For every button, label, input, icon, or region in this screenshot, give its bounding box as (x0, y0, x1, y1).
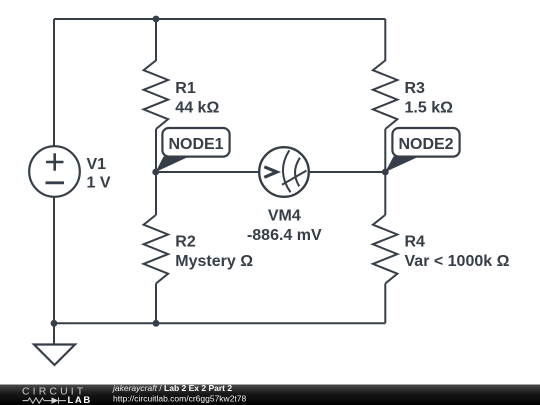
node A (NODE1 junction) (152, 169, 159, 176)
wire center vertical top lead (155, 19, 157, 61)
svg-text:LAB: LAB (68, 395, 92, 405)
wire center between R2 and bottom rail (155, 284, 157, 324)
node junction bottom left (51, 320, 58, 327)
svg-text:Mystery Ω: Mystery Ω (175, 253, 253, 270)
svg-text:R1: R1 (175, 80, 196, 97)
CircuitLab logo circuit doodle (resistor + diode) (23, 397, 67, 403)
resistor R1 (144, 60, 169, 129)
wire right between R3 and node2 (384, 129, 386, 172)
svg-text:http://circuitlab.com/cr6gg57k: http://circuitlab.com/cr6gg57kw2t78 (113, 394, 247, 404)
label V1 value (87, 156, 111, 191)
NODE1 flag (156, 128, 230, 172)
CircuitLab logo wordmark (22, 386, 86, 398)
label R4 Var < 1000k Ohm (405, 233, 510, 270)
CircuitLab logo LAB (68, 395, 92, 405)
wire center between R1 and node1 (155, 129, 157, 172)
voltage source V1 (29, 146, 80, 197)
wire right between node2 and R4 (384, 172, 386, 215)
footer bar (0, 385, 540, 405)
svg-text:1 V: 1 V (87, 174, 111, 191)
node junction top (153, 16, 160, 23)
wire center between node1 and R2 (155, 172, 157, 215)
svg-text:44 kΩ: 44 kΩ (175, 100, 219, 117)
label R2 Mystery Ohm (175, 233, 253, 270)
resistor R2 (144, 215, 169, 284)
node B (NODE2 junction) (382, 169, 389, 176)
svg-text:VM4: VM4 (268, 207, 301, 224)
wire bottom horizontal rail (54, 322, 385, 324)
svg-text:1.5 kΩ: 1.5 kΩ (405, 100, 454, 117)
wire voltmeter to node2 (308, 171, 385, 173)
label R1 44 kOhm (175, 80, 219, 117)
label R3 1.5 kOhm (405, 80, 454, 117)
wire left vertical upper (53, 19, 55, 147)
wire left vertical lower (53, 197, 55, 324)
svg-text:Var < 1000k Ω: Var < 1000k Ω (405, 253, 510, 270)
wire top horizontal (54, 18, 385, 20)
svg-text:R4: R4 (405, 233, 426, 250)
NODE2 flag (385, 128, 459, 172)
voltmeter VM4 (259, 147, 309, 197)
svg-text:R3: R3 (405, 80, 426, 97)
wire right vertical top lead (384, 19, 386, 61)
node junction bottom center (153, 320, 160, 327)
svg-text:-886.4 mV: -886.4 mV (247, 227, 322, 244)
wire node1 to voltmeter (156, 171, 260, 173)
svg-text:R2: R2 (175, 233, 196, 250)
label VM4 reading (247, 207, 322, 244)
footer url line (113, 394, 247, 404)
footer title line (112, 383, 232, 393)
wire right between R4 and bottom rail (384, 284, 386, 324)
svg-text:jakeraycraft / Lab 2 Ex 2 Part: jakeraycraft / Lab 2 Ex 2 Part 2 (112, 383, 232, 393)
resistor R4 (373, 215, 398, 284)
resistor R3 (373, 60, 398, 129)
svg-text:NODE2: NODE2 (398, 136, 453, 153)
ground (34, 323, 75, 365)
svg-text:V1: V1 (87, 156, 107, 173)
svg-text:NODE1: NODE1 (168, 136, 223, 153)
